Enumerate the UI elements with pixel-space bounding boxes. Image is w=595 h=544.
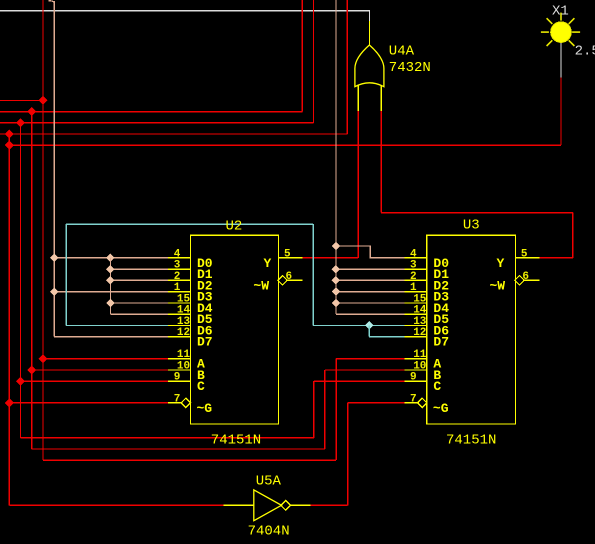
wire net G: row from left edge to riser x=347.5 [0,133,347,135]
U3 pin 7 inversion bubble [418,398,427,407]
junction net B at (31.7,111.6) [27,107,36,116]
U2 pin stub Y pin 5 [279,257,303,259]
junction tan at (335.9,269.3) [332,265,340,273]
U2 pin stub D6 pin 13 [168,324,191,326]
U2 pin stub B pin 10 [168,369,191,371]
U2 pin stub ~W pin 6 [286,279,302,281]
junction net B at (31.7,370) [27,365,36,374]
svg-text:1: 1 [410,282,417,294]
junction tan at (335.9,280.3) [332,276,340,284]
wire cyan net: drop to U3 pin D7 row [368,325,370,336]
inverter U5A output bubble [281,500,291,510]
svg-text:11: 11 [413,349,427,361]
svg-text:74151N: 74151N [446,433,496,449]
wire tan row to U2 pin D1 [110,268,168,270]
junction cyan at (369.2,325.4) [365,321,373,329]
wire net C: bottom extension row to x=313.8 [20,437,313,439]
svg-text:U2: U2 [226,218,243,234]
U3 pin stub C pin 9 [404,380,427,382]
svg-text:U5A: U5A [256,473,282,489]
svg-text:~W: ~W [490,278,506,293]
svg-text:~G: ~G [433,401,449,416]
svg-text:5: 5 [284,248,291,260]
wire net A: vertical column x=43 [42,0,44,359]
U2 pin stub D0 pin 4 [168,257,191,259]
U3 pin stub ~G pin 7 with bubble [404,402,419,404]
inverter U5A triangle body 7404N [254,490,282,521]
wire tan row to U3 pin D4 [336,302,404,304]
wire tan row to U3 pin D3 [336,291,404,293]
U2 pin stub D1 pin 3 [168,268,191,270]
svg-text:13: 13 [413,316,427,328]
svg-text:6: 6 [522,271,529,283]
junction tan at (335.9,291.6) [332,287,340,295]
svg-text:1: 1 [174,282,181,294]
wire tan row to U2 pin D4 [110,302,168,304]
junction tan at (54.2,291.6) [50,287,58,295]
svg-text:7404N: 7404N [248,524,290,540]
U3 pin stub Y pin 5 [515,257,539,259]
svg-text:9: 9 [174,372,181,384]
wire tan jog to U3 pin D0 [336,246,404,258]
wire U3.Y net: red riser up to OR gate right input [380,111,382,212]
U3 pin stub D4 pin 15 [404,302,427,304]
wire OR left input stub yellow [357,85,359,111]
junction tan at (110.4,269.3) [106,265,114,273]
junction net G at (9.3,402.8) [5,398,14,407]
or-gate U4A body 7432N [355,45,384,87]
svg-text:14: 14 [177,305,191,317]
svg-text:6: 6 [286,271,293,283]
junction net C at (20.4,122.8) [16,118,25,127]
inverter U5A input stub yellow [224,504,254,506]
wire tan row to U2 pin D0 [54,257,168,259]
wire tan row to U2 pin D3 [54,291,168,293]
wire lamp net: riser red part [560,77,562,145]
junction tan at (54.2,257.8) [50,254,58,262]
svg-text:C: C [433,379,441,394]
junction net A at (43,100.4) [38,96,47,105]
wire tan column x=54.2 from top [53,1,55,337]
lamp X1 rays [541,13,580,46]
wire U5A output net: red segment to riser [311,504,348,506]
U2 pin stub D5 pin 14 [168,313,191,315]
wire net C: row to U2 pin C [20,380,168,382]
svg-text:7: 7 [410,393,417,405]
wire net G: riser x=347.5 to top edge [346,0,348,134]
U3 pin stub D5 pin 14 [404,313,427,315]
junction net G at (9.3,134.0) [5,129,14,138]
wire net C: column x=20.4 [19,123,21,438]
junction tan at (335.9,245.9) [332,242,340,250]
wire net A: row to U2 pin A [43,358,168,360]
svg-text:14: 14 [413,305,427,317]
wire lamp net: row from (9.3,145.2) to lamp riser [9,144,561,146]
wire cyan net: riser x=313.2 [312,224,314,325]
wire tan row to U2 pin D5 [110,313,168,315]
wire net B: column x=31.7 [31,112,33,449]
svg-text:C: C [197,379,205,394]
wire tan row to U2 pin D2 [110,279,168,281]
wire net C: row to U3 pin C [314,380,405,382]
svg-text:10: 10 [177,361,190,373]
junction tan at (110.4,302.9) [106,299,114,307]
wire net B: bottom extension row to x=324.8 [32,448,325,450]
U2 pin stub D3 pin 1 [168,291,191,293]
U3 pin stub D3 pin 1 [404,291,427,293]
wire OR right input stub yellow [380,85,382,111]
wire U3.Y net: riser at x=572.8 [572,213,574,258]
junction tan at (110.4,280.3) [106,276,114,284]
svg-text:15: 15 [177,293,191,305]
wire tan top hook [49,1,55,3]
svg-text:3: 3 [174,260,181,272]
wire white net from OR output going left [0,11,370,21]
U2 pin 7 inversion bubble [181,398,190,407]
wire net G: row to U2 pin ~G [9,402,168,404]
wire net G: column x=9.3 [8,134,10,505]
svg-text:12: 12 [177,327,190,339]
svg-text:4: 4 [174,248,181,260]
svg-text:X1: X1 [552,3,569,19]
U3 pin stub D7 pin 12 [404,336,427,338]
svg-text:U3: U3 [463,218,480,234]
wire cyan net: top row above U2 [66,223,313,225]
wire U5A output net: riser to U3 ~G row [347,403,349,506]
svg-text:7: 7 [174,393,181,405]
multiplexer U2 body 74151N [191,235,279,424]
svg-text:5: 5 [521,248,528,260]
U3 pin ~W inversion bubble [515,276,524,285]
svg-text:D7: D7 [433,335,449,350]
U2 pin ~W inversion bubble [278,276,287,285]
U2 pin stub C pin 9 [168,380,191,382]
U3 pin stub D2 pin 2 [404,279,427,281]
wire net B: row from left edge to riser x=302.3 [0,111,302,113]
svg-text:7432N: 7432N [389,60,431,76]
svg-text:2: 2 [410,271,417,283]
U3 pin stub A pin 11 [404,358,427,360]
wire cyan net: riser x=66.2 [65,224,67,325]
svg-text:4: 4 [410,248,417,260]
wire net B: row to U3 pin B [325,369,405,371]
U3 pin stub B pin 10 [404,369,427,371]
wire net B: row to U2 pin B [32,369,168,371]
wire net C: riser x=313.4 to top edge [312,0,314,123]
wire tan row to U3 pin D5 [336,313,404,315]
svg-text:12: 12 [413,327,426,339]
wire tan column x=335.9 from top [335,0,337,314]
wire net A: bottom extension row to x=336.2 [43,459,336,461]
wire net A: column continues down to extension row [42,359,44,461]
lamp X1 bulb [551,22,572,43]
wire net C: row from left edge to riser x=313.4 [0,122,313,124]
U2 pin stub D7 pin 12 [168,336,191,338]
svg-text:U4A: U4A [389,44,415,60]
wire net C: riser up to U3 pin C row [313,381,315,438]
wire cyan net: row to U2 pin D6 [66,324,168,326]
wire lamp net: riser white part to lamp terminal [560,43,562,78]
U2 pin stub ~G pin 7 with bubble [168,402,182,404]
wire U3.Y net: red row right of U3 [539,257,573,259]
U3 pin stub D6 pin 13 [404,324,427,326]
svg-text:D7: D7 [197,335,213,350]
svg-text:13: 13 [177,316,191,328]
svg-text:10: 10 [413,361,426,373]
wire cyan net: row to U3 pin D6 [313,324,404,326]
junction tan at (110.4,257.8) [106,254,114,262]
U2 pin stub A pin 11 [168,358,191,360]
junction tan at (335.9,302.9) [332,299,340,307]
multiplexer U3 body 74151N [427,235,516,424]
wire OR output stub yellow [369,21,371,46]
wire tan row to U3 pin D2 [336,279,404,281]
svg-text:9: 9 [410,372,417,384]
wire cyan net: row to U3 pin D7 [369,336,404,338]
svg-text:Y: Y [497,256,505,271]
wire U5A output net: row to U3 pin ~G [348,402,405,404]
junction net A at (43,358.7) [38,354,47,363]
wire net G: bottom row to inverter U5A input [9,504,223,506]
svg-text:74151N: 74151N [211,433,261,449]
svg-text:Y: Y [264,256,272,271]
wire net A: row to U3 pin A [336,358,404,360]
svg-text:15: 15 [413,293,427,305]
U2 pin stub D4 pin 15 [168,302,191,304]
wire net A: row from left edge to column x=43 [0,99,43,101]
junction net C at (20.4,381.2) [16,377,25,386]
wire net B: riser up to U3 pin B row [324,370,326,449]
U3 pin stub ~W pin 6 [523,279,539,281]
wire net A: riser up to U3 pin A row [335,359,337,461]
svg-text:2.5V: 2.5V [575,43,595,59]
wire net B: riser x=302.3 to top edge [301,0,303,112]
wire tan row to U3 pin D1 [336,268,404,270]
wire tan row to U2 pin D7 [54,336,168,338]
U3 pin stub D0 pin 4 [404,257,427,259]
U2 pin stub D2 pin 2 [168,279,191,281]
wire U3.Y net: top row to OR right input riser [381,212,573,214]
U3 pin stub D1 pin 3 [404,268,427,270]
svg-text:3: 3 [410,260,417,272]
svg-text:2: 2 [174,271,181,283]
inverter U5A output stub yellow [290,504,311,506]
junction net G at (9.3,145.2) lamp row tap [5,141,14,150]
svg-text:~G: ~G [197,401,213,416]
svg-text:11: 11 [177,349,191,361]
wire tan column x=110.4 [109,258,111,314]
wire U2.Y net: red riser up to OR gate left input [357,111,359,258]
wire U2.Y net: red row to OR left input riser [302,257,358,259]
svg-text:~W: ~W [253,278,269,293]
